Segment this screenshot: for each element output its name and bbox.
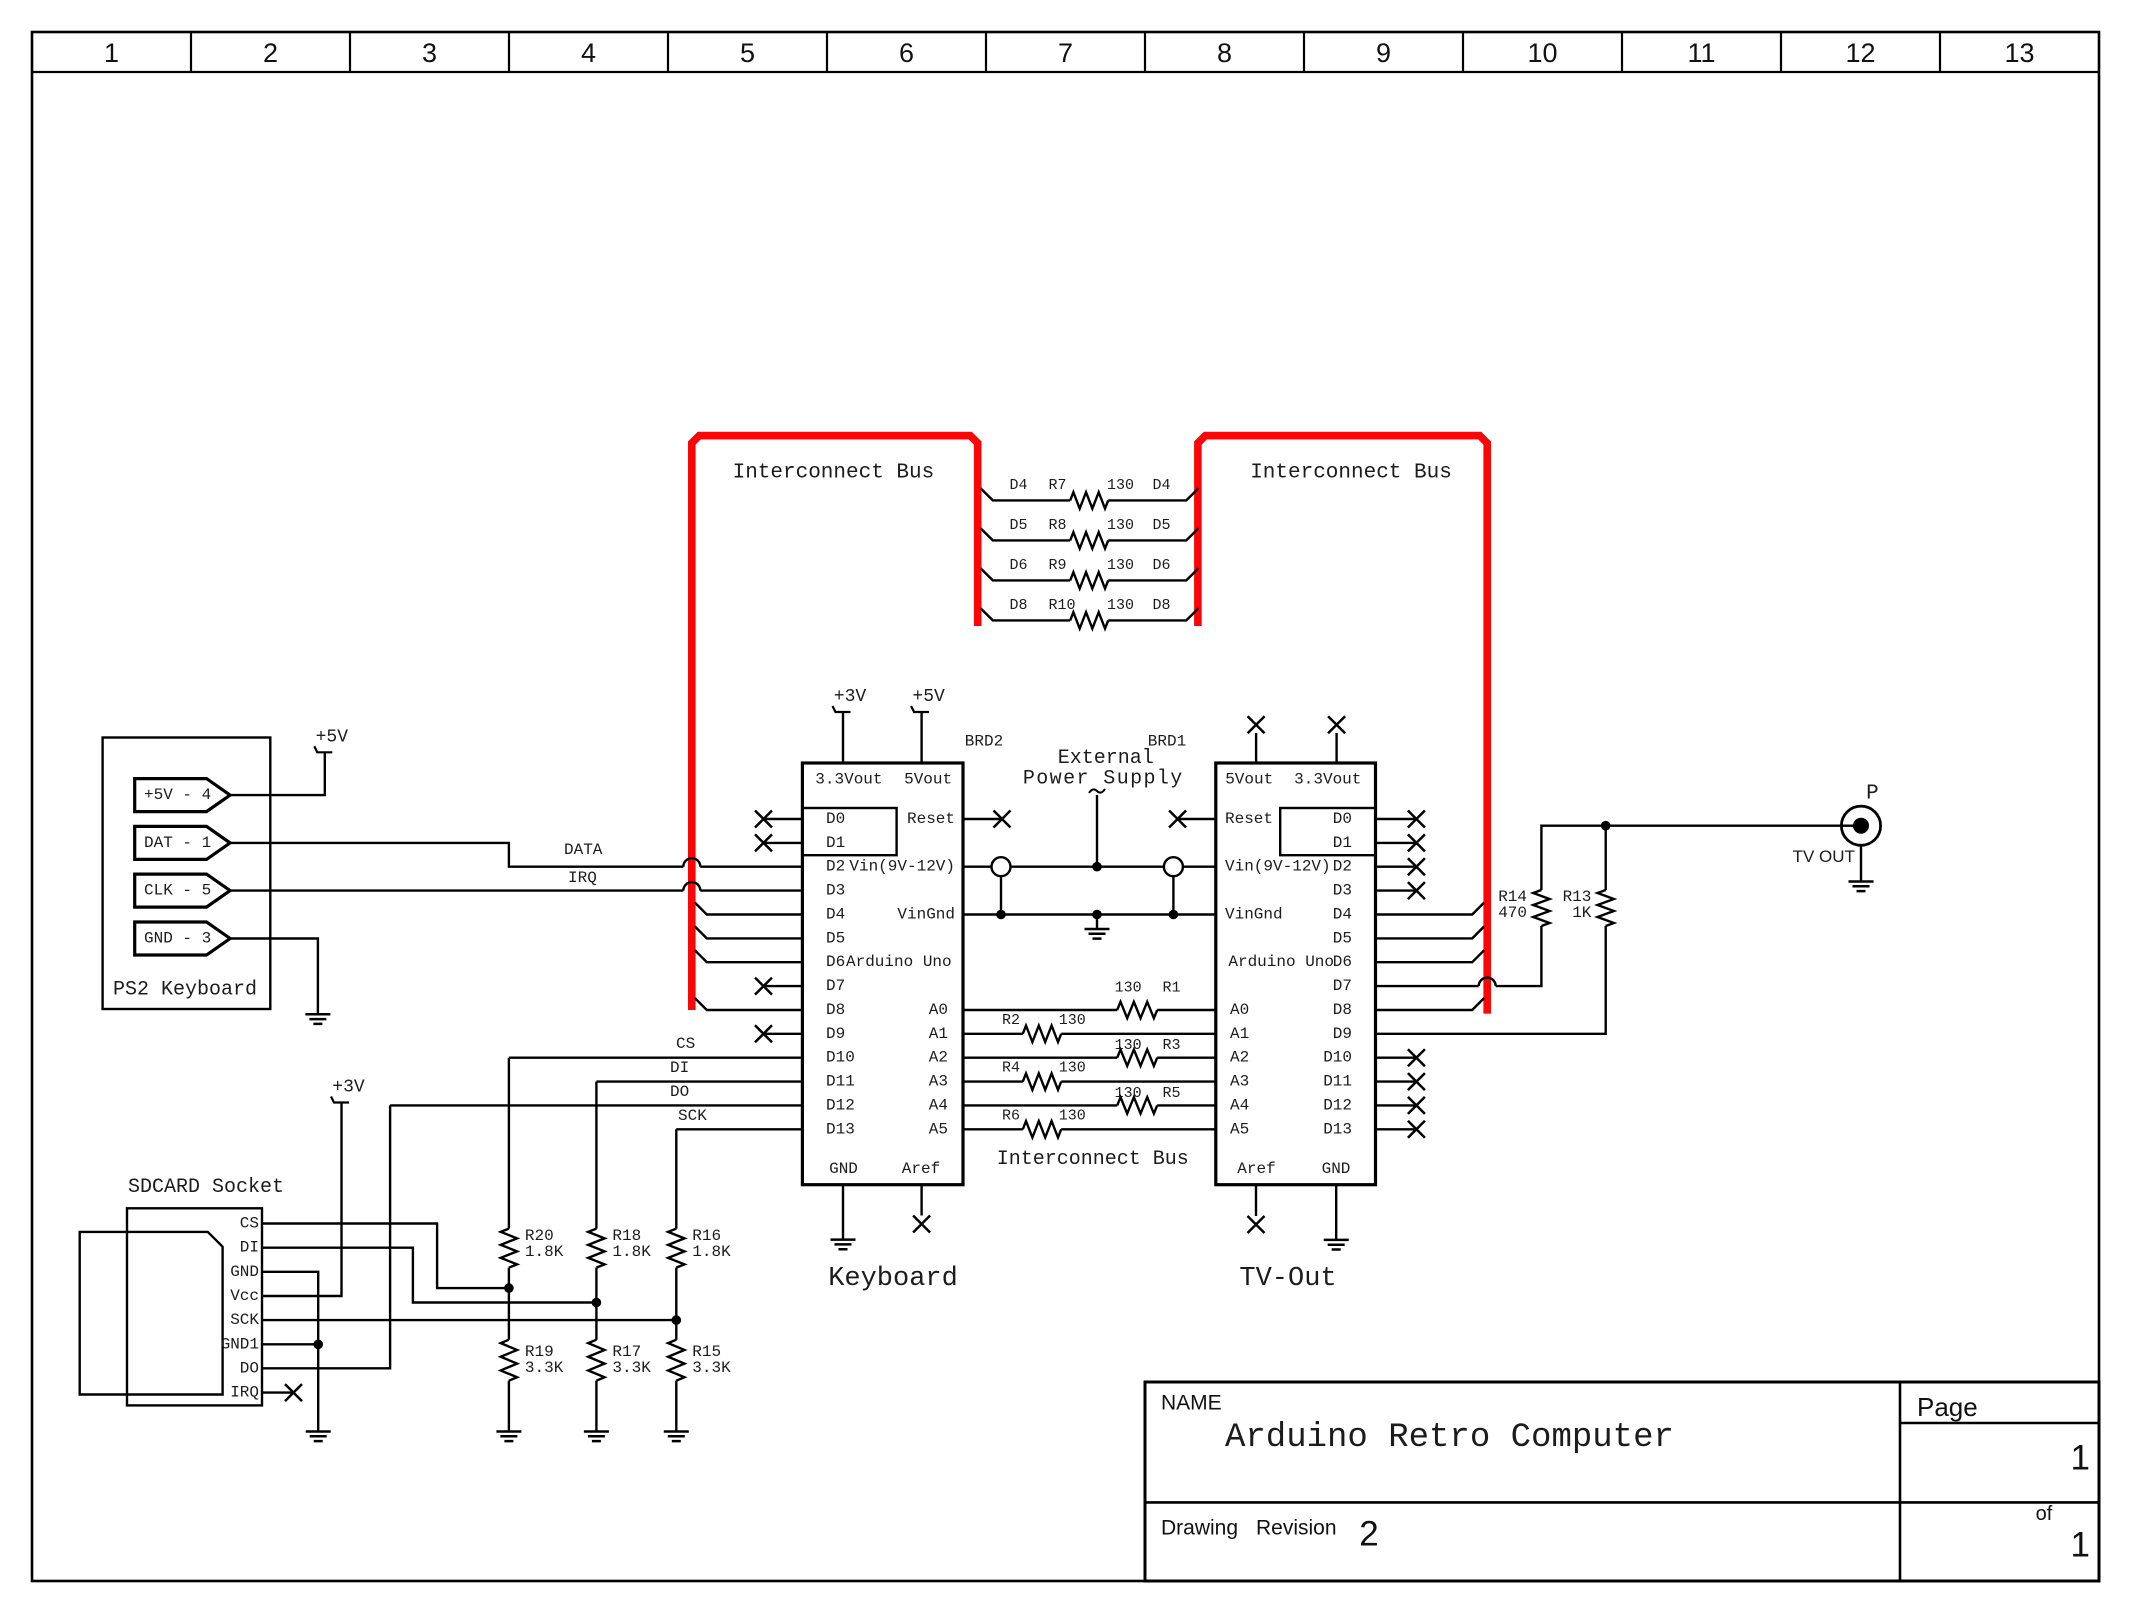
wire bus tap BRD2 D5 bbox=[695, 926, 803, 938]
svg-text:D8: D8 bbox=[826, 1001, 845, 1019]
wire BRD2 5Vout to +5V bbox=[920, 712, 922, 763]
svg-text:A5: A5 bbox=[929, 1120, 948, 1138]
ground R17 bbox=[584, 1432, 609, 1442]
svg-text:12: 12 bbox=[1845, 38, 1875, 68]
svg-text:2: 2 bbox=[1359, 1515, 1378, 1554]
power supply plug squiggle bbox=[1089, 789, 1105, 793]
wire TV OUT shield to ground bbox=[1860, 845, 1862, 881]
wire BRD1 GND to ground bbox=[1335, 1185, 1337, 1240]
svg-text:R3: R3 bbox=[1163, 1037, 1181, 1054]
svg-text:130: 130 bbox=[1115, 980, 1142, 997]
connector P TV OUT bbox=[1841, 806, 1880, 845]
svg-text:1: 1 bbox=[2071, 1526, 2090, 1565]
svg-text:CLK - 5: CLK - 5 bbox=[144, 882, 211, 900]
no-connect BRD1 Reset bbox=[1169, 811, 1186, 828]
resistor R19 3.3K bbox=[501, 1340, 517, 1381]
svg-text:IRQ: IRQ bbox=[230, 1384, 259, 1402]
wire BRD1 D9 to R13 bbox=[1376, 926, 1606, 1034]
Arduino Uno BRD1 TV-Out board bbox=[1216, 763, 1376, 1185]
svg-text:A4: A4 bbox=[929, 1096, 948, 1114]
interconnect bus bracket right (red) bbox=[1198, 436, 1487, 1014]
wire BRD1 D7 to R14 bbox=[1376, 926, 1542, 986]
svg-text:BRD1: BRD1 bbox=[1148, 733, 1186, 751]
junction R20/R19 bbox=[504, 1283, 514, 1293]
ground R15 bbox=[664, 1432, 689, 1442]
resistor R16 1.8K bbox=[668, 1229, 684, 1268]
svg-text:Aref: Aref bbox=[1237, 1160, 1275, 1178]
svg-text:7: 7 bbox=[1058, 38, 1073, 68]
svg-text:TV-Out: TV-Out bbox=[1239, 1264, 1336, 1294]
junction left VinGnd bbox=[996, 910, 1006, 920]
wire plug to Vin bbox=[1096, 795, 1098, 867]
svg-text:Interconnect Bus: Interconnect Bus bbox=[1250, 462, 1452, 485]
resistor R7 130 bbox=[1070, 492, 1108, 508]
svg-text:6: 6 bbox=[899, 38, 914, 68]
svg-text:NAME: NAME bbox=[1161, 1392, 1222, 1415]
svg-text:R8: R8 bbox=[1049, 517, 1067, 534]
svg-text:D3: D3 bbox=[826, 882, 845, 900]
svg-text:D6: D6 bbox=[1153, 557, 1171, 574]
no-connect BRD1 D3 bbox=[1376, 889, 1417, 891]
svg-text:1.8K: 1.8K bbox=[612, 1243, 651, 1261]
svg-text:5: 5 bbox=[740, 38, 755, 68]
junction R18/R17 bbox=[592, 1298, 602, 1308]
wire bus tap BRD2 D6 bbox=[695, 950, 803, 962]
wire BRD2 3.3Vout to +3V bbox=[842, 712, 844, 763]
ground SD bbox=[306, 1432, 331, 1442]
svg-text:1K: 1K bbox=[1572, 904, 1592, 922]
svg-text:VinGnd: VinGnd bbox=[897, 906, 955, 924]
wire GND-3 pin to ground bbox=[230, 939, 318, 1015]
wire bus tap D5 left bbox=[981, 528, 1070, 540]
wire R16 top lead bbox=[675, 1129, 677, 1228]
svg-text:+3V: +3V bbox=[332, 1078, 365, 1098]
svg-text:A1: A1 bbox=[1230, 1025, 1249, 1043]
svg-text:D2: D2 bbox=[1333, 858, 1352, 876]
svg-text:D8: D8 bbox=[1153, 597, 1171, 614]
resistor R1 130 bbox=[1117, 1002, 1157, 1018]
resistor R10 130 bbox=[1070, 612, 1108, 628]
ground PS2 bbox=[305, 1014, 330, 1024]
wire bus tap BRD2 D8 bbox=[695, 998, 803, 1010]
svg-text:Power Supply: Power Supply bbox=[1023, 768, 1184, 791]
wire right circle to VinGnd bbox=[1172, 876, 1174, 914]
svg-text:SCK: SCK bbox=[678, 1107, 707, 1125]
svg-text:R7: R7 bbox=[1049, 477, 1067, 494]
svg-text:GND: GND bbox=[829, 1160, 858, 1178]
ground TV OUT bbox=[1849, 882, 1874, 892]
resistor R14 470 bbox=[1533, 890, 1549, 926]
resistor R13 1K bbox=[1598, 890, 1614, 926]
wire SD IRQ stub bbox=[262, 1391, 294, 1393]
connector pin +5V - 4 bbox=[135, 779, 230, 812]
svg-text:DI: DI bbox=[670, 1059, 689, 1077]
svg-text:CS: CS bbox=[676, 1035, 695, 1053]
svg-text:D12: D12 bbox=[826, 1096, 855, 1114]
svg-text:130: 130 bbox=[1107, 517, 1134, 534]
power symbol +3V BRD2 bbox=[833, 706, 851, 712]
svg-text:D10: D10 bbox=[1323, 1049, 1352, 1067]
svg-text:11: 11 bbox=[1687, 38, 1715, 68]
wire BRD1 Aref stub bbox=[1255, 1185, 1257, 1216]
wire SCK BRD2 D13 bbox=[676, 1128, 802, 1130]
svg-text:D5: D5 bbox=[1333, 929, 1352, 947]
wire DATA DAT-1 to BRD2 D2 bbox=[230, 843, 802, 867]
connector pin CLK - 5 bbox=[135, 874, 230, 907]
svg-text:+3V: +3V bbox=[834, 687, 867, 707]
svg-text:D0: D0 bbox=[1333, 810, 1352, 828]
Arduino Uno BRD2 Keyboard board bbox=[802, 763, 963, 1185]
no-connect BRD2 D0 bbox=[764, 818, 803, 820]
no-connect BRD1 3.3Vout bbox=[1328, 716, 1345, 733]
junction supply ground bbox=[1092, 910, 1102, 920]
svg-text:13: 13 bbox=[2004, 38, 2034, 68]
no-connect BRD2 D9 bbox=[764, 1033, 803, 1035]
no-connect BRD1 D2 bbox=[1376, 866, 1417, 868]
no-connect BRD1 Aref bbox=[1248, 1216, 1265, 1233]
wire +5V-4 pin to +5V bbox=[230, 752, 325, 795]
wire bus tap D6 right bbox=[1108, 568, 1198, 580]
resistor R8 130 bbox=[1070, 532, 1108, 548]
wire bus tap BRD1 D6 bbox=[1376, 950, 1485, 962]
svg-text:DAT - 1: DAT - 1 bbox=[144, 834, 211, 852]
resistor R6 130 bbox=[1023, 1121, 1061, 1137]
svg-text:SCK: SCK bbox=[230, 1311, 259, 1329]
svg-text:D6: D6 bbox=[1010, 557, 1028, 574]
SD card outline bbox=[80, 1232, 223, 1395]
wire BRD2 Aref stub bbox=[920, 1185, 922, 1216]
resistor R15 3.3K bbox=[668, 1340, 684, 1381]
wire hop DATA over bus bbox=[683, 858, 700, 867]
wire bus tap BRD2 D4 bbox=[695, 903, 803, 915]
svg-text:470: 470 bbox=[1498, 904, 1527, 922]
wire bus tap D4 right bbox=[1108, 488, 1198, 500]
wire BRD1 5Vout stub bbox=[1255, 733, 1257, 763]
PS2 Keyboard connector box bbox=[103, 738, 271, 1010]
junction GND1 bbox=[313, 1340, 323, 1350]
svg-text:DO: DO bbox=[240, 1359, 259, 1377]
wire bus tap BRD1 D5 bbox=[1376, 926, 1485, 938]
no-connect BRD1 D13 bbox=[1376, 1128, 1417, 1130]
wire bus tap D6 left bbox=[981, 568, 1070, 580]
svg-text:VinGnd: VinGnd bbox=[1225, 906, 1283, 924]
svg-text:Reset: Reset bbox=[1225, 810, 1273, 828]
svg-text:3.3K: 3.3K bbox=[525, 1359, 564, 1377]
svg-text:Reset: Reset bbox=[907, 810, 955, 828]
resistor R4 130 bbox=[1023, 1073, 1061, 1089]
svg-text:SDCARD Socket: SDCARD Socket bbox=[128, 1176, 284, 1199]
BRD2 D0/D1 inner box bbox=[802, 808, 896, 855]
svg-text:+5V - 4: +5V - 4 bbox=[144, 786, 211, 804]
BRD1 D0/D1 inner box bbox=[1280, 808, 1375, 855]
svg-text:130: 130 bbox=[1115, 1085, 1142, 1102]
svg-text:D6: D6 bbox=[1333, 953, 1352, 971]
svg-text:D8: D8 bbox=[1010, 597, 1028, 614]
svg-text:D7: D7 bbox=[826, 977, 845, 995]
svg-text:D4: D4 bbox=[1153, 477, 1171, 494]
interconnect bus bracket left (red) bbox=[692, 436, 978, 1010]
wire A1 BRD2 to BRD1 bbox=[963, 1033, 1216, 1035]
wire DI BRD2 D11 bbox=[596, 1080, 802, 1082]
svg-text:130: 130 bbox=[1059, 1060, 1086, 1077]
svg-text:3.3K: 3.3K bbox=[692, 1359, 731, 1377]
svg-text:4: 4 bbox=[581, 38, 596, 68]
wire IRQ CLK-5 to BRD2 D3 bbox=[230, 889, 802, 891]
svg-text:130: 130 bbox=[1059, 1107, 1086, 1124]
svg-text:GND - 3: GND - 3 bbox=[144, 930, 211, 948]
wire BRD2 Reset stub bbox=[963, 818, 1002, 820]
wire SD SCK to R16 junction bbox=[262, 1319, 676, 1321]
svg-text:D11: D11 bbox=[826, 1073, 855, 1091]
svg-text:A1: A1 bbox=[929, 1025, 948, 1043]
wire Vin BRD2 to BRD1 bbox=[963, 866, 1216, 868]
svg-text:10: 10 bbox=[1527, 38, 1557, 68]
svg-text:5Vout: 5Vout bbox=[1225, 771, 1273, 789]
svg-text:DATA: DATA bbox=[564, 841, 603, 859]
svg-text:+5V: +5V bbox=[912, 687, 945, 707]
svg-text:R6: R6 bbox=[1002, 1107, 1020, 1124]
svg-text:D5: D5 bbox=[1153, 517, 1171, 534]
connector circle left Vin bbox=[992, 857, 1011, 876]
wire bus tap BRD1 D8 bbox=[1376, 998, 1485, 1010]
resistor R17 3.3K bbox=[588, 1340, 604, 1381]
svg-text:D9: D9 bbox=[826, 1025, 845, 1043]
connector circle right Vin bbox=[1164, 857, 1183, 876]
svg-text:Arduino Uno: Arduino Uno bbox=[1228, 953, 1334, 971]
wire bus tap D8 right bbox=[1108, 608, 1198, 620]
wire SD Vcc to +3V bbox=[262, 1103, 342, 1297]
svg-text:R1: R1 bbox=[1163, 980, 1181, 997]
svg-text:D11: D11 bbox=[1323, 1073, 1352, 1091]
svg-text:D13: D13 bbox=[1323, 1120, 1352, 1138]
svg-text:3.3K: 3.3K bbox=[612, 1359, 651, 1377]
svg-text:8: 8 bbox=[1217, 38, 1232, 68]
wire supply ground stem bbox=[1096, 915, 1098, 930]
svg-text:D5: D5 bbox=[1010, 517, 1028, 534]
svg-text:Vin(9V-12V): Vin(9V-12V) bbox=[849, 858, 955, 876]
svg-text:9: 9 bbox=[1376, 38, 1391, 68]
wire A2 BRD2 to BRD1 bbox=[963, 1056, 1216, 1058]
wire VinGnd BRD2 to BRD1 bbox=[963, 913, 1216, 915]
wire video node to TV OUT bbox=[1606, 825, 1858, 827]
wire A3 BRD2 to BRD1 bbox=[963, 1080, 1216, 1082]
svg-text:D4: D4 bbox=[1333, 906, 1352, 924]
svg-text:2: 2 bbox=[263, 38, 278, 68]
svg-text:A2: A2 bbox=[1230, 1049, 1249, 1067]
svg-text:A4: A4 bbox=[1230, 1096, 1249, 1114]
svg-text:3.3Vout: 3.3Vout bbox=[815, 771, 882, 789]
wire R14 top to node bbox=[1541, 826, 1605, 890]
svg-text:GND: GND bbox=[230, 1263, 259, 1281]
wire R13 top to node bbox=[1604, 826, 1606, 890]
wire left circle to VinGnd bbox=[1000, 876, 1002, 914]
wire A5 BRD2 to BRD1 bbox=[963, 1128, 1216, 1130]
svg-text:IRQ: IRQ bbox=[568, 869, 597, 887]
no-connect SD IRQ bbox=[285, 1384, 302, 1401]
svg-text:Drawing: Drawing bbox=[1161, 1517, 1238, 1540]
svg-text:D5: D5 bbox=[826, 929, 845, 947]
svg-text:3: 3 bbox=[422, 38, 437, 68]
svg-text:Interconnect Bus: Interconnect Bus bbox=[733, 462, 935, 485]
ground BRD2 bbox=[831, 1240, 856, 1250]
svg-text:Keyboard: Keyboard bbox=[828, 1264, 958, 1294]
svg-text:Vcc: Vcc bbox=[230, 1287, 259, 1305]
svg-text:D8: D8 bbox=[1333, 1001, 1352, 1019]
svg-text:+5V: +5V bbox=[316, 727, 349, 747]
svg-text:3.3Vout: 3.3Vout bbox=[1294, 771, 1361, 789]
svg-text:D2: D2 bbox=[826, 858, 845, 876]
svg-text:DI: DI bbox=[240, 1239, 259, 1257]
svg-text:5Vout: 5Vout bbox=[904, 771, 952, 789]
svg-text:130: 130 bbox=[1107, 597, 1134, 614]
wire A0 BRD2 to BRD1 bbox=[963, 1009, 1216, 1011]
no-connect BRD2 Reset bbox=[994, 811, 1011, 828]
svg-text:A2: A2 bbox=[929, 1049, 948, 1067]
svg-text:D12: D12 bbox=[1323, 1096, 1352, 1114]
svg-text:D6: D6 bbox=[826, 953, 845, 971]
svg-text:130: 130 bbox=[1059, 1012, 1086, 1029]
wire R20 top lead bbox=[508, 1058, 510, 1229]
svg-text:130: 130 bbox=[1107, 477, 1134, 494]
svg-text:D4: D4 bbox=[826, 906, 845, 924]
power symbol +3V SD bbox=[331, 1097, 349, 1103]
svg-text:D1: D1 bbox=[1333, 834, 1352, 852]
svg-text:Page: Page bbox=[1917, 1392, 1978, 1422]
svg-text:Vin(9V-12V): Vin(9V-12V) bbox=[1225, 858, 1331, 876]
svg-text:D4: D4 bbox=[1010, 477, 1028, 494]
svg-text:A3: A3 bbox=[1230, 1073, 1249, 1091]
svg-text:R9: R9 bbox=[1049, 557, 1067, 574]
junction right VinGnd bbox=[1169, 910, 1179, 920]
junction R16/R15 bbox=[672, 1315, 682, 1325]
wire SD CS to R20 junction bbox=[262, 1224, 509, 1289]
svg-text:A5: A5 bbox=[1230, 1120, 1249, 1138]
svg-text:Revision: Revision bbox=[1256, 1517, 1337, 1540]
svg-text:1: 1 bbox=[104, 38, 119, 68]
svg-text:130: 130 bbox=[1115, 1037, 1142, 1054]
wire bus tap D5 right bbox=[1108, 528, 1198, 540]
ground BRD1 bbox=[1324, 1240, 1349, 1250]
wire SD GND GND1 to ground bbox=[262, 1272, 318, 1432]
ground R19 bbox=[496, 1432, 521, 1442]
no-connect BRD2 D7 bbox=[764, 985, 803, 987]
resistor R3 130 bbox=[1117, 1050, 1157, 1066]
connector pin GND - 3 bbox=[135, 922, 230, 955]
svg-text:D9: D9 bbox=[1333, 1025, 1352, 1043]
no-connect BRD2 D1 bbox=[764, 842, 803, 844]
svg-text:A0: A0 bbox=[929, 1001, 948, 1019]
svg-text:D7: D7 bbox=[1333, 977, 1352, 995]
svg-text:R10: R10 bbox=[1049, 597, 1076, 614]
svg-text:D10: D10 bbox=[826, 1049, 855, 1067]
wire BRD1 3.3Vout stub bbox=[1335, 733, 1337, 763]
wire BRD2 GND to ground bbox=[842, 1185, 844, 1240]
svg-text:PS2 Keyboard: PS2 Keyboard bbox=[113, 979, 257, 1002]
svg-text:130: 130 bbox=[1107, 557, 1134, 574]
wire hop IRQ over bus bbox=[683, 882, 700, 891]
svg-text:R4: R4 bbox=[1002, 1060, 1020, 1077]
svg-text:GND: GND bbox=[1322, 1160, 1351, 1178]
no-connect BRD2 Aref bbox=[913, 1216, 930, 1233]
svg-text:CS: CS bbox=[240, 1215, 259, 1233]
junction video node bbox=[1601, 821, 1611, 831]
svg-text:D1: D1 bbox=[826, 834, 845, 852]
svg-text:1: 1 bbox=[2071, 1439, 2090, 1478]
resistor R5 130 bbox=[1117, 1097, 1157, 1113]
svg-text:R2: R2 bbox=[1002, 1012, 1020, 1029]
wire hop D7 over bus bbox=[1479, 978, 1496, 987]
svg-text:R5: R5 bbox=[1163, 1085, 1181, 1102]
svg-text:Aref: Aref bbox=[902, 1160, 940, 1178]
junction plug Vin bbox=[1092, 862, 1102, 872]
ground power supply bbox=[1085, 929, 1110, 939]
svg-text:A3: A3 bbox=[929, 1073, 948, 1091]
svg-text:D3: D3 bbox=[1333, 882, 1352, 900]
svg-text:D0: D0 bbox=[826, 810, 845, 828]
wire bus tap D4 left bbox=[981, 488, 1070, 500]
svg-text:1.8K: 1.8K bbox=[525, 1243, 564, 1261]
svg-text:Arduino Uno: Arduino Uno bbox=[846, 953, 952, 971]
wire CS BRD2 D10 bbox=[509, 1056, 803, 1058]
resistor R2 130 bbox=[1023, 1026, 1061, 1042]
svg-text:1.8K: 1.8K bbox=[692, 1243, 731, 1261]
wire A4 BRD2 to BRD1 bbox=[963, 1104, 1216, 1106]
title block bbox=[1145, 1382, 2099, 1581]
resistor R9 130 bbox=[1070, 572, 1108, 588]
connector pin DAT - 1 bbox=[135, 826, 230, 859]
svg-text:BRD2: BRD2 bbox=[965, 733, 1003, 751]
wire SD DO to BRD2 D12 bbox=[262, 1105, 390, 1368]
no-connect BRD1 D10 bbox=[1376, 1056, 1417, 1058]
no-connect BRD1 D0 bbox=[1376, 818, 1417, 820]
resistor R20 1.8K bbox=[501, 1229, 517, 1268]
svg-text:P: P bbox=[1866, 783, 1879, 806]
SDCARD socket box bbox=[127, 1208, 262, 1405]
svg-text:Arduino Retro Computer: Arduino Retro Computer bbox=[1225, 1419, 1674, 1457]
wire bus tap D8 left bbox=[981, 608, 1070, 620]
wire R18 top lead bbox=[595, 1082, 597, 1229]
svg-text:of: of bbox=[2036, 1503, 2053, 1525]
power symbol +5V BRD2 bbox=[911, 706, 929, 712]
resistor R18 1.8K bbox=[588, 1229, 604, 1268]
svg-text:DO: DO bbox=[670, 1083, 689, 1101]
svg-text:TV OUT: TV OUT bbox=[1793, 847, 1855, 866]
power symbol +5V PS2 bbox=[314, 746, 332, 752]
no-connect BRD1 D12 bbox=[1376, 1104, 1417, 1106]
svg-text:GND1: GND1 bbox=[221, 1335, 259, 1353]
svg-text:Interconnect Bus: Interconnect Bus bbox=[997, 1148, 1189, 1171]
svg-text:A0: A0 bbox=[1230, 1001, 1249, 1019]
no-connect BRD1 5Vout bbox=[1248, 716, 1265, 733]
wire SD DI to R18 junction bbox=[262, 1248, 596, 1303]
wire bus tap BRD1 D4 bbox=[1376, 903, 1485, 915]
wire BRD1 Reset stub bbox=[1178, 818, 1216, 820]
svg-text:D13: D13 bbox=[826, 1120, 855, 1138]
no-connect BRD1 D11 bbox=[1376, 1080, 1417, 1082]
no-connect BRD1 D1 bbox=[1376, 842, 1417, 844]
wire DO BRD2 D12 bbox=[390, 1104, 802, 1106]
